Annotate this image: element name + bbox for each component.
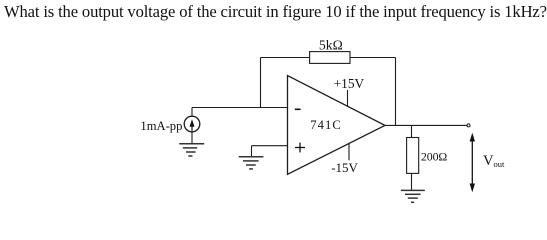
- svg-text:+15V: +15V: [334, 76, 365, 91]
- svg-text:200Ω: 200Ω: [421, 150, 448, 164]
- svg-text:-15V: -15V: [331, 160, 358, 175]
- svg-text:741C: 741C: [310, 118, 342, 132]
- svg-text:1mA-pp: 1mA-pp: [140, 119, 182, 133]
- svg-text:What is the output voltage of: What is the output voltage of the circui…: [4, 2, 547, 21]
- svg-text:5kΩ: 5kΩ: [319, 38, 343, 53]
